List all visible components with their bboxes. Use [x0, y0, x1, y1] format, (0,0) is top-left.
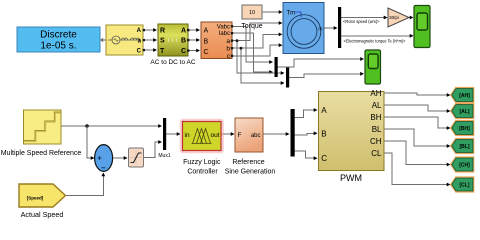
svg-text:Discrete: Discrete — [40, 30, 77, 41]
svg-text:CH: CH — [370, 137, 382, 146]
svg-text:A: A — [137, 28, 142, 34]
svg-text:C: C — [204, 49, 209, 56]
svg-text:A: A — [181, 28, 186, 35]
svg-text:b: b — [226, 46, 230, 53]
svg-text:[BL]: [BL] — [460, 144, 470, 150]
svg-text:C: C — [321, 154, 327, 163]
svg-text:B: B — [181, 38, 186, 45]
svg-text:in: in — [185, 132, 190, 139]
svg-text:1e-05 s.: 1e-05 s. — [40, 41, 76, 52]
svg-text:Torque: Torque — [241, 23, 263, 30]
svg-text:A: A — [321, 106, 327, 115]
svg-text:Vabc: Vabc — [217, 25, 230, 31]
svg-text:[BH]: [BH] — [459, 126, 470, 132]
svg-text:Iabc: Iabc — [219, 31, 230, 37]
svg-text:Mux1: Mux1 — [158, 153, 170, 159]
svg-text:<Electromagnetic torque Te (N*: <Electromagnetic torque Te (N*m)> — [344, 38, 407, 43]
svg-text:a: a — [226, 38, 230, 45]
svg-text:[CH]: [CH] — [459, 162, 470, 168]
svg-text:R: R — [160, 28, 165, 35]
svg-text:30/pi: 30/pi — [389, 15, 399, 20]
svg-text:C: C — [137, 49, 142, 55]
svg-text:BL: BL — [372, 125, 382, 134]
svg-text:[CL]: [CL] — [460, 182, 470, 188]
svg-text:Actual Speed: Actual Speed — [21, 210, 64, 219]
svg-text:F: F — [238, 132, 242, 139]
svg-text:CL: CL — [371, 149, 382, 158]
svg-text:m: m — [318, 27, 322, 33]
svg-text:AH: AH — [370, 89, 381, 98]
svg-text:Sine Generation: Sine Generation — [225, 168, 276, 175]
svg-text:10: 10 — [249, 10, 255, 16]
svg-text:[Speed]: [Speed] — [27, 196, 44, 201]
svg-text:[AL]: [AL] — [460, 109, 470, 115]
svg-text:B: B — [204, 39, 209, 46]
svg-text:Multiple Speed Reference: Multiple Speed Reference — [1, 150, 82, 157]
svg-text:<Rotor speed (wm)>: <Rotor speed (wm)> — [343, 19, 380, 24]
svg-text:AL: AL — [372, 101, 382, 110]
svg-text:Reference: Reference — [232, 159, 264, 166]
svg-text:Controller: Controller — [187, 168, 218, 175]
svg-text:AC to DC to AC: AC to DC to AC — [150, 59, 195, 66]
svg-text:A: A — [204, 28, 209, 35]
svg-text:PWM: PWM — [340, 173, 362, 183]
svg-text:out: out — [210, 132, 219, 139]
svg-text:BH: BH — [370, 113, 381, 122]
svg-text:T: T — [160, 48, 165, 55]
svg-text:[AH]: [AH] — [459, 93, 470, 99]
svg-text:abc: abc — [251, 133, 261, 139]
svg-text:B: B — [321, 129, 326, 138]
svg-text:S: S — [160, 38, 165, 45]
svg-text:C: C — [181, 48, 186, 55]
svg-text:Fuzzy Logic: Fuzzy Logic — [183, 159, 221, 166]
svg-text:Tm: Tm — [287, 11, 296, 17]
